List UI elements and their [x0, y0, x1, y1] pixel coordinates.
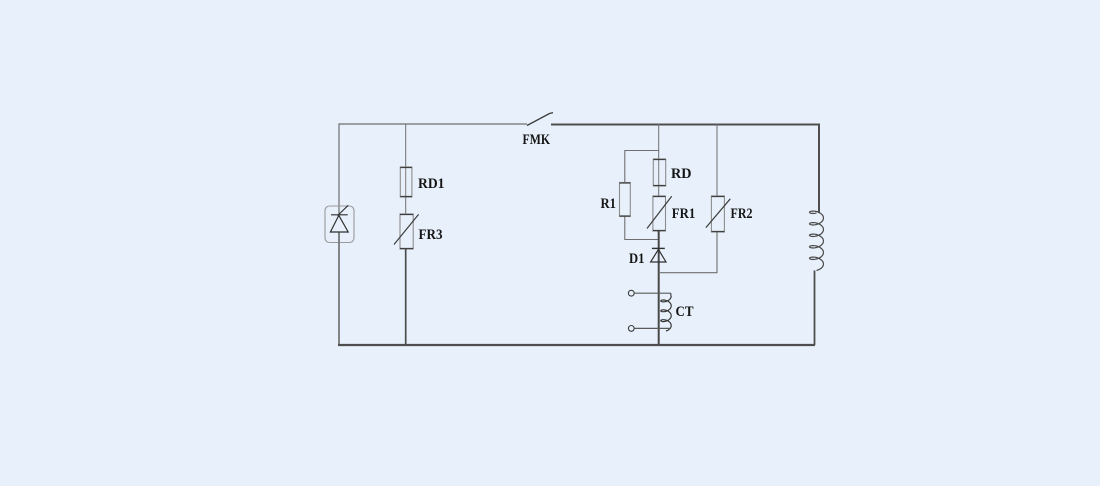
varistor FR2 end caps	[711, 197, 724, 232]
switch FMK blade	[527, 113, 553, 126]
wire CT coil top joint	[670, 293, 672, 296]
wire RD1 column top	[405, 124, 407, 167]
node R1 branch top	[625, 151, 659, 183]
varistor FR1	[653, 196, 666, 231]
wire CT upper lead	[634, 292, 670, 294]
fuse RD	[653, 159, 665, 186]
svg-text:R1: R1	[601, 196, 617, 212]
resistor R1 end caps	[620, 183, 631, 216]
varistor FR2	[711, 196, 724, 232]
wire CT lower lead	[634, 327, 671, 329]
varistor FR3 end caps	[400, 215, 413, 249]
svg-text:FR2: FR2	[731, 206, 753, 222]
inductor L load coil	[810, 211, 824, 270]
wire main column top	[658, 124, 660, 159]
svg-text:CT: CT	[676, 304, 694, 320]
wire FR3 to bottom	[405, 249, 407, 345]
wire FR2 bottom branch	[659, 232, 717, 273]
terminal circle CT upper	[628, 290, 634, 296]
wire left-bottom segment	[338, 243, 340, 346]
wire arrester to bottom	[338, 232, 340, 243]
fuse RD1	[400, 167, 412, 197]
svg-text:RD1: RD1	[418, 176, 445, 192]
svg-text:FR1: FR1	[672, 206, 696, 222]
varistor FR3	[400, 214, 413, 249]
wire top-left segment	[339, 124, 527, 215]
winding CT coil	[661, 296, 671, 331]
arrester F box	[325, 206, 354, 243]
wire R1 branch bottom	[625, 217, 659, 240]
svg-text:RD: RD	[671, 166, 692, 182]
wire RD1 to FR3	[405, 197, 407, 214]
svg-text:D1: D1	[629, 251, 645, 267]
resistor R1	[620, 183, 631, 217]
arrester breakover stroke	[338, 205, 349, 215]
svg-text:FMK: FMK	[523, 132, 551, 148]
arrester triangle	[330, 215, 348, 232]
wire bottom rail	[338, 344, 815, 346]
wire FR2 column top	[716, 124, 718, 196]
wire right-bottom segment	[814, 271, 816, 346]
wire top-right segment	[551, 125, 819, 214]
fuse RD end caps	[653, 160, 665, 186]
varistor FR1 end caps	[653, 197, 666, 231]
wire RD to FR1	[658, 186, 660, 196]
svg-text:FR3: FR3	[419, 227, 443, 243]
diode D1	[652, 247, 665, 249]
terminal circle CT lower	[628, 326, 634, 332]
wire main column lower	[658, 231, 660, 345]
fuse RD1 end caps	[400, 168, 412, 197]
arrester cathode bar	[331, 214, 348, 216]
